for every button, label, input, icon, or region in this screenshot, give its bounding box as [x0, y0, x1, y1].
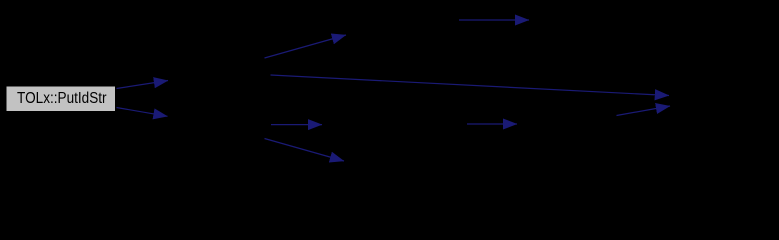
wire edge E2 — [117, 108, 168, 117]
wire edge E7 — [271, 124, 322, 126]
wire edge E3 — [265, 35, 347, 58]
wire edge E9 — [617, 106, 671, 116]
svg-text:TOLx::PutIdStr: TOLx::PutIdStr — [17, 90, 107, 107]
wire edge E8 — [467, 123, 517, 125]
wire edge E1 — [117, 81, 169, 89]
wire edge E4 — [271, 75, 670, 96]
wire edge E6 — [265, 139, 345, 162]
wire edge E5 — [459, 19, 529, 21]
node TOLx::PutIdStr — [6, 86, 116, 112]
